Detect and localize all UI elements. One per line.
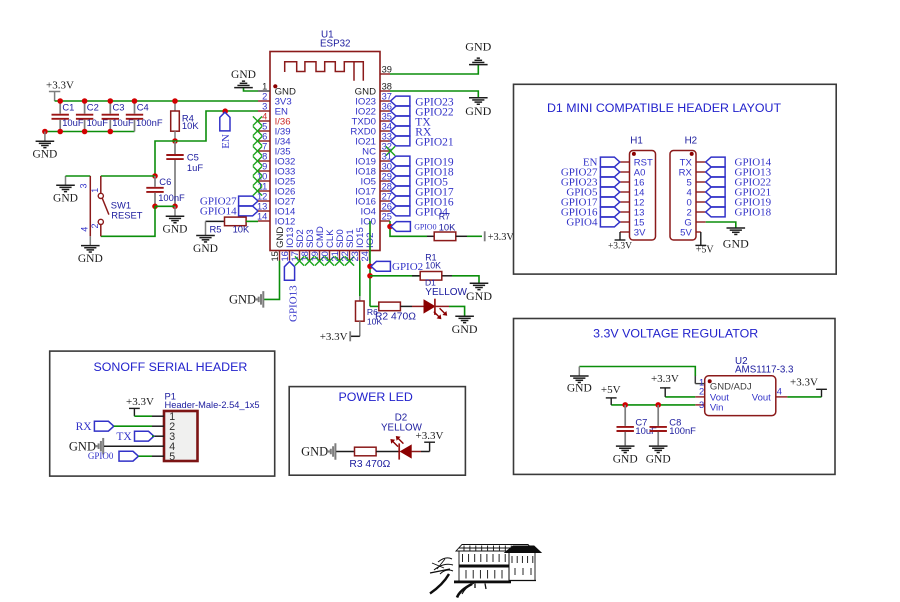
wire GND to SW1 pin3 <box>66 175 91 177</box>
junction C5 bottom <box>172 204 178 210</box>
U1 left pin 10 IO25 <box>253 172 296 188</box>
svg-text:+5V: +5V <box>696 245 715 256</box>
wire TX to P1 pin3 <box>152 435 154 437</box>
U1 right pin 35 TXD0 <box>351 112 391 128</box>
svg-text:SONOFF SERIAL HEADER: SONOFF SERIAL HEADER <box>94 360 248 374</box>
junction C1 bottom <box>57 129 63 135</box>
power +5V below H2 <box>695 232 714 256</box>
power +3.3V below H1 <box>608 232 632 252</box>
label RX <box>76 421 114 433</box>
resistor R2 <box>375 302 416 322</box>
U1 left pin 6 I/34 <box>253 132 291 148</box>
svg-text:Header-Male-2.54_1x5: Header-Male-2.54_1x5 <box>165 400 260 410</box>
U1 left pin 9 IO33 <box>253 162 296 178</box>
svg-text:5: 5 <box>262 122 267 132</box>
label GPIO21 at H2 <box>706 187 771 199</box>
wire RX to P1 pin2 <box>114 425 152 427</box>
U1 bottom pin 24 IO2 <box>360 233 376 262</box>
svg-text:4: 4 <box>777 387 782 397</box>
svg-text:100nF: 100nF <box>136 117 163 128</box>
U1 left pin 12 IO27 <box>257 192 295 208</box>
label TX <box>116 431 154 443</box>
svg-text:10K: 10K <box>233 223 250 234</box>
label GPIO19 at H2 <box>706 197 772 209</box>
U1 right pin 33 IO21 <box>355 132 392 148</box>
U1 right pin 32 NC <box>362 142 395 158</box>
wire pin1 to GND <box>244 88 259 91</box>
svg-text:13: 13 <box>257 202 267 212</box>
wire LED D2 to +3.3V <box>421 451 430 453</box>
ground left in regulator box <box>567 367 592 395</box>
svg-text:1: 1 <box>262 82 267 92</box>
wire +3.3V to P1 pin1 <box>134 415 152 417</box>
svg-text:10K: 10K <box>439 221 456 232</box>
wire GPIO0 to P1 pin5 <box>138 455 152 457</box>
svg-text:1: 1 <box>90 188 100 193</box>
ground above pin1 <box>231 69 256 88</box>
svg-text:R7: R7 <box>439 212 450 222</box>
ground below SW1 <box>78 236 103 265</box>
junction EN label <box>222 108 228 114</box>
wire +5V to pin3 <box>611 404 695 406</box>
U2 pin 3 Vin <box>695 400 704 410</box>
svg-text:GND: GND <box>613 454 638 466</box>
svg-text:GPIO13: GPIO13 <box>287 285 299 322</box>
power +3.3V below R6 <box>349 331 351 341</box>
wire LED D1 to GND <box>449 306 465 316</box>
U1 right pin 28 IO17 <box>355 182 392 198</box>
label GPIO19 <box>391 156 454 168</box>
wire pin15 to GND <box>264 261 280 300</box>
wire pin1 to GND <box>694 376 696 384</box>
resistor R4 <box>171 101 200 141</box>
svg-text:+5V: +5V <box>601 384 621 396</box>
power input GND at pin15 <box>229 291 263 308</box>
H2 pin 1 TX <box>680 157 706 168</box>
svg-text:H1: H1 <box>630 136 643 147</box>
power +3.3V top-left <box>46 80 74 101</box>
label GPIO14 at H2 <box>706 157 772 169</box>
svg-text:GND: GND <box>78 253 103 265</box>
capacitor C3 <box>102 101 134 132</box>
header H2 <box>670 136 697 240</box>
U1 bottom pin 20 CLK <box>320 229 336 266</box>
svg-text:8: 8 <box>262 152 267 162</box>
svg-text:+3.3V: +3.3V <box>488 232 515 243</box>
svg-text:100nF: 100nF <box>669 425 696 436</box>
svg-text:2: 2 <box>90 223 100 228</box>
ground below R5 <box>193 221 218 254</box>
svg-text:100nF: 100nF <box>158 192 185 203</box>
svg-text:RX: RX <box>76 421 93 433</box>
svg-text:15: 15 <box>270 251 280 261</box>
U2 pin 2 Vout <box>695 387 704 397</box>
resistor R5 <box>206 217 259 234</box>
svg-text:R3 470Ω: R3 470Ω <box>349 459 390 470</box>
svg-text:12: 12 <box>257 192 267 202</box>
resistor R6 <box>356 296 383 336</box>
svg-text:Vout: Vout <box>752 392 771 403</box>
junction GPIO0 label <box>387 224 393 230</box>
junction C6 bottom <box>152 204 158 210</box>
ground below C8 <box>646 446 671 466</box>
svg-text:GND: GND <box>229 293 256 307</box>
svg-text:14: 14 <box>257 212 267 222</box>
U1 bottom pin 16 IO13 <box>280 227 296 261</box>
power input GND in POWER LED box <box>301 443 335 460</box>
svg-text:GPIO0: GPIO0 <box>88 451 114 461</box>
label GPIO23 <box>391 96 454 108</box>
svg-text:C5: C5 <box>187 151 199 162</box>
ground below LED D1 <box>452 316 478 336</box>
H2 pin 5 0 <box>687 197 706 208</box>
wire EN net <box>175 111 258 141</box>
svg-text:GND: GND <box>646 454 671 466</box>
H1 pin 1 RST <box>620 157 653 168</box>
U1 bottom pin 21 SD0 <box>330 229 346 265</box>
power +3.3V at U2 pin2 <box>651 373 679 397</box>
H1 pin 8 3V <box>634 227 646 238</box>
svg-text:GPIO18: GPIO18 <box>735 207 772 219</box>
wire pin24 down <box>369 221 371 306</box>
svg-text:TX: TX <box>116 431 132 443</box>
svg-text:2: 2 <box>262 92 267 102</box>
U1 bottom pin 15 GND <box>270 227 286 262</box>
svg-text:YELLOW: YELLOW <box>425 287 467 298</box>
U1 left pin 13 IO14 <box>257 202 296 218</box>
header H1 <box>630 136 656 240</box>
label GPIO13 <box>284 262 299 323</box>
box POWER LED <box>289 387 465 476</box>
label GPIO16 <box>391 196 454 208</box>
pin1 marker dot U1 <box>273 84 277 88</box>
svg-text:GND: GND <box>53 193 78 205</box>
svg-text:C4: C4 <box>137 101 149 112</box>
power input GND at P1 pin4 <box>69 438 103 455</box>
svg-text:D1 MINI COMPATIBLE HEADER LAYO: D1 MINI COMPATIBLE HEADER LAYOUT <box>547 101 782 115</box>
global label EN <box>220 112 232 149</box>
U1 left pin 8 IO32 <box>253 152 296 168</box>
label GPIO18 <box>391 166 454 178</box>
svg-text:3V: 3V <box>634 227 646 238</box>
junction R4 bottom / EN net <box>172 138 178 144</box>
label GPIO23 at H1 <box>561 177 620 189</box>
svg-text:GND: GND <box>465 40 491 54</box>
wire +3.3V rail <box>55 100 258 102</box>
U1 left pin 14 IO12 <box>257 212 295 228</box>
label EN at H1 <box>583 157 620 169</box>
wire R6 to +3.3V <box>351 335 360 337</box>
junction C6 top <box>152 173 158 179</box>
junction C4 top <box>132 98 138 104</box>
U1 right pin 27 IO16 <box>355 192 392 208</box>
wire H2 G to GND <box>706 222 736 228</box>
U1 left pin 2 3V3 <box>258 92 292 108</box>
junction R4 top <box>172 98 178 104</box>
wire pin39 to GND <box>390 65 478 74</box>
label GPIO16 at H1 <box>561 207 620 219</box>
U1 bottom pin 22 SD1 <box>340 229 356 265</box>
svg-text:+3.3V: +3.3V <box>416 430 444 442</box>
svg-text:GND: GND <box>301 445 328 459</box>
U1 bottom pin 17 SD2 <box>290 229 306 265</box>
wire R1 to GND <box>452 276 479 283</box>
H2 pin 6 2 <box>687 207 706 218</box>
U1 left pin 11 IO26 <box>253 182 296 198</box>
H2 pin 4 4 <box>687 187 706 198</box>
ground below C5/C6 <box>163 206 188 235</box>
P1 pin 2 <box>152 421 175 433</box>
P1 pin 1 <box>152 411 175 423</box>
svg-text:7: 7 <box>262 142 267 152</box>
wire EN to C6 <box>155 141 175 176</box>
capacitor C8 <box>650 405 697 446</box>
H1 pin 7 15 <box>620 217 645 228</box>
U1 right pin 29 IO5 <box>361 172 392 188</box>
svg-text:GND: GND <box>193 243 218 255</box>
box D1 MINI COMPATIBLE HEADER LAYOUT <box>514 84 837 274</box>
label GPIO22 <box>391 106 454 118</box>
junction C3 top <box>108 98 114 104</box>
wire R7 to +3.3V <box>456 235 467 237</box>
power +3.3V in POWER LED box <box>416 430 444 452</box>
U1 left pin 4 I/36 <box>253 112 291 128</box>
svg-text:GPIO2: GPIO2 <box>392 261 423 273</box>
svg-text:+3.3V: +3.3V <box>46 80 74 92</box>
label GPIO5 at H1 <box>566 187 619 199</box>
wire C6 bottom to SW1 pin2 <box>101 206 155 236</box>
label GPIO0 at P1 <box>88 451 139 461</box>
svg-text:GND: GND <box>465 104 491 118</box>
label GPIO0 <box>391 222 437 232</box>
label GPIO22 at H2 <box>706 177 771 189</box>
U1 right pin 39 <box>380 65 392 75</box>
regulator U2 AMS1117-3.3 <box>705 356 794 415</box>
H1 pin 4 14 <box>620 187 645 198</box>
capacitor C5 <box>166 141 203 206</box>
ESP32 module U1 body <box>270 30 380 251</box>
junction C2 top <box>82 98 88 104</box>
svg-text:+3.3V: +3.3V <box>651 373 679 385</box>
junction GPIO2 <box>367 264 373 270</box>
U1 right pin 26 IO4 <box>361 202 392 218</box>
svg-text:3: 3 <box>78 183 88 188</box>
svg-text:2: 2 <box>699 387 704 397</box>
svg-text:+3.3V: +3.3V <box>320 331 348 343</box>
junction C1 top <box>57 98 63 104</box>
svg-text:5: 5 <box>169 451 175 463</box>
wire C6-top to SW1 pin1 <box>101 175 155 177</box>
label GPIO13 at H2 <box>706 167 772 179</box>
U2 pin 4 Vout <box>776 387 788 397</box>
power +5V <box>601 384 621 405</box>
logo house sketch <box>430 545 541 598</box>
ground above pin39 <box>465 40 491 65</box>
wire lead into R7 <box>427 235 435 237</box>
H2 pin 7 G <box>684 217 705 228</box>
svg-text:23: 23 <box>350 251 360 261</box>
U1 right pin 30 IO18 <box>355 162 392 178</box>
svg-text:GND/ADJ: GND/ADJ <box>710 382 752 393</box>
label GPIO18 at H2 <box>706 207 772 219</box>
H2 pin 8 5V <box>680 227 692 238</box>
svg-text:EN: EN <box>220 134 232 149</box>
svg-text:5V: 5V <box>680 227 692 238</box>
svg-text:GND: GND <box>452 322 478 336</box>
resistor R1 <box>412 252 452 280</box>
LED D2 <box>376 412 422 459</box>
junction C7 <box>622 402 628 408</box>
label GPIO5 <box>391 176 449 188</box>
resistor R3 <box>349 447 390 470</box>
svg-text:C2: C2 <box>87 101 99 112</box>
junction C3 bottom <box>108 129 114 135</box>
U1 bottom pin 19 CMD <box>310 226 326 266</box>
label GPIO17 at H1 <box>561 197 620 209</box>
resistor R7 <box>434 212 456 241</box>
svg-text:GND: GND <box>32 149 57 161</box>
power +3.3V right of R7 <box>484 231 486 241</box>
H2 pin 2 RX <box>679 167 706 178</box>
label GPIO27 <box>200 196 258 208</box>
H1 pin 2 A0 <box>620 167 646 178</box>
U1 right pin 31 IO19 <box>355 152 392 168</box>
ground right of R1 <box>466 283 492 303</box>
ground below H2 <box>723 228 749 251</box>
svg-text:GPIO4: GPIO4 <box>566 217 598 229</box>
switch SW1 <box>78 176 142 236</box>
U2 pin 1 <box>695 377 704 387</box>
ground left of SW1 <box>53 176 78 205</box>
svg-text:16: 16 <box>280 251 290 261</box>
H1 pin 6 13 <box>620 207 645 218</box>
P1 pin 3 <box>152 431 175 443</box>
wire GND to P1 pin4 <box>104 445 152 447</box>
U1 left pin 1 GND <box>258 82 296 98</box>
svg-text:4: 4 <box>79 227 89 232</box>
U1 left pin 7 I/35 <box>253 142 291 158</box>
U1 left pin 3 EN <box>258 102 288 118</box>
svg-text:+3.3V: +3.3V <box>790 376 818 388</box>
wire pin23 to R6 <box>359 261 361 297</box>
wire to R2 <box>370 305 379 307</box>
U1 right pin 36 IO22 <box>355 102 392 118</box>
header P1 <box>164 390 260 461</box>
svg-text:GND: GND <box>231 69 256 81</box>
svg-text:3: 3 <box>699 400 704 410</box>
capacitor C7 <box>617 405 658 446</box>
wire pin38 to GND <box>390 91 478 98</box>
svg-text:AMS1117-3.3: AMS1117-3.3 <box>735 365 794 376</box>
P1 pin 4 <box>152 441 175 453</box>
svg-text:IO0: IO0 <box>361 216 376 227</box>
svg-text:24: 24 <box>360 251 370 261</box>
svg-text:GPIO14: GPIO14 <box>200 206 237 218</box>
junction C8 <box>655 402 661 408</box>
svg-text:GND: GND <box>723 237 749 251</box>
U1 bottom pin 18 SD3 <box>300 229 316 265</box>
U1 right pin 34 RXD0 <box>350 122 392 138</box>
wire to R1 <box>370 275 420 277</box>
label GPIO4 at H1 <box>566 217 619 229</box>
svg-text:GND: GND <box>163 224 188 236</box>
svg-text:+3.3V: +3.3V <box>126 396 154 408</box>
svg-text:1uF: 1uF <box>187 162 203 173</box>
label RX <box>391 126 432 138</box>
svg-text:H2: H2 <box>685 136 698 147</box>
svg-text:D1: D1 <box>425 278 436 288</box>
H1 pin 3 16 <box>620 177 645 188</box>
junction GND rail tap <box>42 129 48 135</box>
junction R1 <box>367 273 373 279</box>
capacitor C4 <box>126 101 163 132</box>
capacitor C6 <box>146 176 185 206</box>
wire pin2 to +3.3V <box>665 396 695 398</box>
svg-text:IO12: IO12 <box>275 216 296 227</box>
svg-text:9: 9 <box>262 162 267 172</box>
label GPIO27 at H1 <box>561 167 620 179</box>
label GPIO14 <box>200 206 258 218</box>
U1 bottom pin 23 IO15 <box>350 227 366 261</box>
ground below C7 <box>613 446 638 466</box>
H1 pin 5 12 <box>620 197 645 208</box>
svg-text:C6: C6 <box>159 176 171 187</box>
svg-text:POWER LED: POWER LED <box>339 390 413 404</box>
svg-text:GPIO21: GPIO21 <box>415 136 454 148</box>
wire GND to R3 <box>336 451 355 453</box>
svg-text:RESET: RESET <box>111 210 143 221</box>
wire C6 bottom to C5 bottom <box>155 205 175 207</box>
power +3.3V at U2 pin4 <box>790 376 827 397</box>
label GPIO4 <box>391 206 449 218</box>
P1 pin 5 <box>152 451 175 463</box>
svg-text:R5: R5 <box>210 223 222 234</box>
U1 right pin 25 IO0 <box>361 212 392 228</box>
H2 pin 3 5 <box>687 177 706 188</box>
box 3.3V VOLTAGE REGULATOR <box>514 319 836 475</box>
ground below pin38 <box>465 98 491 118</box>
svg-text:10K: 10K <box>182 120 199 131</box>
box SONOFF SERIAL HEADER <box>50 351 275 476</box>
wire GND rail <box>45 131 135 133</box>
svg-text:Vin: Vin <box>710 403 724 414</box>
junction C2 bottom <box>82 129 88 135</box>
capacitor C2 <box>76 101 108 132</box>
svg-text:10K: 10K <box>367 316 383 326</box>
svg-text:25: 25 <box>382 212 392 222</box>
U1 right pin 37 IO23 <box>355 92 392 108</box>
LED D1 <box>400 278 467 320</box>
svg-text:4: 4 <box>262 112 267 122</box>
label GPIO17 <box>391 186 454 198</box>
svg-text:GND: GND <box>466 289 492 303</box>
svg-text:GPIO0: GPIO0 <box>414 223 436 232</box>
U1 right pin 38 GND <box>355 82 392 98</box>
label TX <box>391 116 432 128</box>
svg-text:ESP32: ESP32 <box>320 38 351 49</box>
wire pin25 to R7 <box>390 221 427 236</box>
U1 left pin 5 I/39 <box>253 122 291 138</box>
ground below C1-C4 rail <box>32 132 57 161</box>
svg-text:C1: C1 <box>62 101 74 112</box>
label GPIO2 <box>371 261 423 273</box>
svg-text:GND: GND <box>567 383 592 395</box>
capacitor C1 <box>52 101 84 132</box>
svg-text:+3.3V: +3.3V <box>608 242 632 252</box>
svg-text:3: 3 <box>262 102 267 112</box>
svg-text:6: 6 <box>262 132 267 142</box>
power +3.3V at P1 pin1 <box>126 396 154 416</box>
